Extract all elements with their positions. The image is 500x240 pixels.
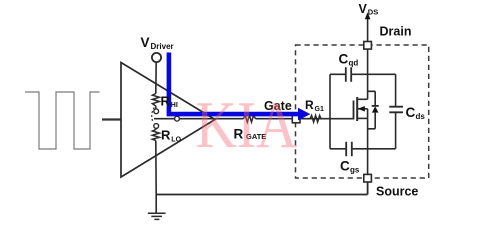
switch S1 throw 2 circle xyxy=(154,124,159,129)
svg-text:DS: DS xyxy=(368,8,378,17)
svg-text:C: C xyxy=(406,105,416,120)
resistor R_G1 xyxy=(310,115,321,122)
svg-text:KIA: KIA xyxy=(196,88,298,162)
wire gate riser xyxy=(329,74,331,149)
ground xyxy=(155,195,157,213)
transistor Q1 MOSFET gate bar xyxy=(353,101,355,120)
node VDriver terminal circle xyxy=(152,53,161,62)
svg-text:V: V xyxy=(359,2,368,16)
node Source terminal square xyxy=(364,174,372,182)
switch S1 throw 1 circle xyxy=(154,109,159,114)
resistor R_HI xyxy=(152,94,159,110)
svg-text:LO: LO xyxy=(171,136,181,143)
input square wave xyxy=(25,92,100,149)
wire drain vertical xyxy=(367,49,369,99)
wire gate node to mosfet gate xyxy=(300,118,354,120)
wire input to driver xyxy=(102,118,121,120)
svg-text:C: C xyxy=(340,158,350,173)
svg-text:R: R xyxy=(161,94,171,109)
svg-text:R: R xyxy=(305,98,314,112)
blue arrowhead xyxy=(298,108,310,121)
svg-text:ds: ds xyxy=(416,112,426,121)
transistor Q1 MOSFET body stub and arrow xyxy=(357,108,367,110)
wire driver output to gate node xyxy=(154,118,292,120)
svg-text:qd: qd xyxy=(349,59,359,68)
resistor R_LO xyxy=(152,128,159,140)
svg-text:Drain: Drain xyxy=(380,25,412,39)
MOSFET model dashed box xyxy=(296,45,429,178)
svg-text:Source: Source xyxy=(376,184,418,198)
resistor R_GATE xyxy=(244,115,256,122)
transistor Q1 MOSFET drain stub xyxy=(357,98,367,100)
capacitor Cgs xyxy=(330,148,396,150)
node Gate terminal square xyxy=(292,115,300,123)
svg-text:V: V xyxy=(141,35,150,50)
transistor Q1 MOSFET channel bar xyxy=(356,97,358,121)
svg-text:R: R xyxy=(161,128,171,143)
wire source vertical xyxy=(367,109,369,175)
V_DS arrow xyxy=(367,18,369,42)
switch pole circle xyxy=(175,116,180,121)
svg-text:G1: G1 xyxy=(315,106,324,113)
capacitor Cqd xyxy=(330,73,396,75)
wire R_LO to ground xyxy=(155,141,157,195)
svg-text:C: C xyxy=(339,52,349,67)
wire VDriver stem xyxy=(155,62,157,93)
svg-text:Driver: Driver xyxy=(151,42,174,51)
svg-text:gs: gs xyxy=(350,165,360,174)
blue gate-charge path xyxy=(167,53,300,115)
diode D1 body diode xyxy=(368,91,376,129)
op-amp U1 driver triangle xyxy=(121,63,215,178)
transistor Q1 MOSFET source stub xyxy=(357,117,367,119)
svg-text:HI: HI xyxy=(171,102,178,109)
wire source square to return xyxy=(367,182,369,195)
wire source return xyxy=(156,194,367,196)
node Drain terminal square xyxy=(364,42,372,50)
switch S1 dashed wiper arc xyxy=(152,108,155,123)
capacitor Cds xyxy=(395,74,397,149)
